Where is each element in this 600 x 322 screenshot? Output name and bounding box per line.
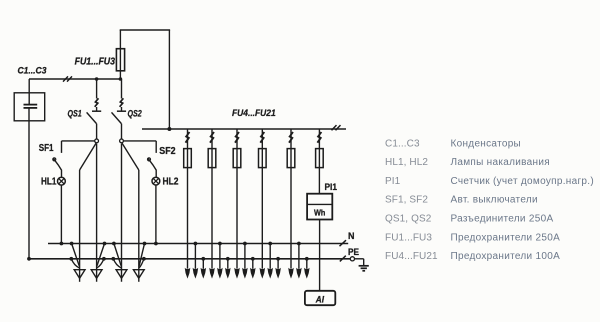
svg-text:QS1: QS1 [68,108,82,118]
svg-text:HL2: HL2 [163,177,179,188]
svg-text:C1...C3: C1...C3 [18,66,47,76]
svg-text:N: N [348,231,355,241]
svg-text:Конденсаторы: Конденсаторы [451,138,522,149]
svg-text:PE: PE [348,247,359,257]
svg-text:SF2: SF2 [159,146,176,157]
svg-text:Wh: Wh [314,208,325,218]
svg-text:HL1: HL1 [41,177,57,188]
svg-text:C1...C3: C1...C3 [385,138,420,149]
svg-text:AI: AI [315,294,325,304]
svg-text:Лампы накаливания: Лампы накаливания [451,157,550,168]
svg-text:FU4...FU21: FU4...FU21 [385,251,438,262]
svg-text:QS1, QS2: QS1, QS2 [385,214,432,225]
svg-text:QS2: QS2 [128,109,143,119]
svg-text:SF1, SF2: SF1, SF2 [385,195,428,206]
svg-text:HL1, HL2: HL1, HL2 [385,157,428,168]
svg-text:PI1: PI1 [385,176,401,187]
svg-text:FU4...FU21: FU4...FU21 [232,108,276,119]
svg-text:Разъединители 250А: Разъединители 250А [451,214,554,225]
svg-text:PI1: PI1 [325,182,338,193]
svg-text:Предохранители 100А: Предохранители 100А [451,251,561,262]
svg-text:FU1...FU3: FU1...FU3 [75,56,116,67]
svg-text:SF1: SF1 [39,143,54,154]
svg-text:FU1...FU3: FU1...FU3 [385,232,432,243]
svg-text:Авт. выключатели: Авт. выключатели [451,195,538,206]
svg-text:Предохранители 250А: Предохранители 250А [451,232,561,243]
svg-text:Счетчик (учет домоупр.нагр.): Счетчик (учет домоупр.нагр.) [451,176,594,187]
